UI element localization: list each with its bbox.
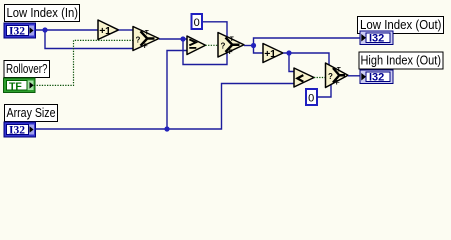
comparison node Less	[294, 68, 314, 87]
terminal High Index (Out) I32 indicator	[360, 70, 393, 84]
wire Select2 output to junction C	[244, 45, 254, 47]
svg-text:?: ?	[328, 72, 333, 81]
svg-text:Rollover?: Rollover?	[6, 62, 48, 76]
label High Index (Out)	[359, 52, 443, 69]
junction B	[180, 36, 185, 41]
wire Array Size main run	[36, 84, 295, 130]
wire Low Index (In) to +1 and junction A	[36, 29, 99, 31]
svg-text:High Index (Out): High Index (Out)	[361, 54, 442, 68]
wire boolean Rollover to Select1 s input (dotted green)	[34, 40, 133, 85]
svg-text:T: T	[337, 66, 341, 73]
wire junction C down to +1 #2 input	[254, 46, 264, 54]
select node #2	[218, 33, 244, 58]
svg-text:0: 0	[194, 17, 200, 29]
svg-text:I32: I32	[369, 71, 384, 83]
wire +1 output to Select1 t input	[119, 29, 134, 31]
svg-text:I32: I32	[369, 32, 384, 44]
increment node +1 #2	[263, 44, 283, 63]
svg-text:?: ?	[221, 42, 226, 51]
svg-text:Low Index (In): Low Index (In)	[7, 6, 79, 20]
svg-text:F: F	[144, 43, 148, 50]
wire junction B down around to Select2 f input	[183, 39, 227, 65]
wire junction C up to Low Index (Out) terminal	[254, 38, 361, 46]
terminal Array Size I32 control	[4, 122, 36, 137]
comparison node GreaterOrEqual	[187, 36, 206, 55]
terminal Low Index (In) I32 control	[4, 23, 36, 38]
select node #1	[133, 27, 159, 51]
wire junction E riser to GE y input	[167, 51, 187, 130]
constant 0 #2	[306, 89, 317, 105]
wire +1 #2 output to junction D and Select3 t	[283, 53, 329, 66]
svg-text:I32: I32	[9, 25, 25, 37]
svg-text:Array Size: Array Size	[7, 106, 56, 120]
svg-text:0: 0	[308, 93, 314, 105]
wire junction D down to Less x input	[289, 53, 294, 72]
svg-text:F: F	[229, 49, 233, 56]
increment node +1 #1	[98, 20, 119, 40]
wire constant 0 #1 to Select2 t input	[203, 22, 227, 37]
constant 0 #1	[192, 14, 203, 29]
select node #3	[326, 63, 349, 88]
wire junction A down to Select1 f input	[45, 30, 133, 49]
wire Select3 output to High Index (Out) terminal	[348, 75, 360, 77]
wire boolean GE output to Select2 s input (dotted)	[206, 44, 219, 46]
svg-text:T: T	[230, 36, 234, 43]
svg-text:+1: +1	[99, 25, 111, 37]
svg-text:+1: +1	[264, 48, 276, 60]
label Rollover?	[4, 61, 50, 78]
svg-text:T: T	[145, 30, 149, 37]
junction E	[164, 126, 169, 131]
svg-text:?: ?	[136, 35, 141, 44]
junction A	[42, 27, 47, 32]
label Array Size	[5, 105, 58, 122]
wire constant 0 #2 to Select3 f input	[317, 85, 331, 97]
svg-text:F: F	[336, 80, 340, 87]
junction C	[251, 43, 256, 48]
svg-text:Low Index (Out): Low Index (Out)	[360, 18, 442, 32]
label Low Index (Out)	[358, 17, 444, 34]
junction D	[286, 50, 291, 55]
svg-text:I32: I32	[9, 124, 25, 136]
terminal Low Index (Out) I32 indicator	[360, 31, 393, 45]
label Low Index (In)	[5, 5, 80, 22]
wire Select1 output to junction B and GE x input	[159, 38, 187, 40]
wire boolean Less output to Select3 s input (dotted)	[314, 77, 326, 79]
svg-text:TF: TF	[9, 80, 22, 92]
terminal Rollover? TF control	[4, 78, 36, 93]
